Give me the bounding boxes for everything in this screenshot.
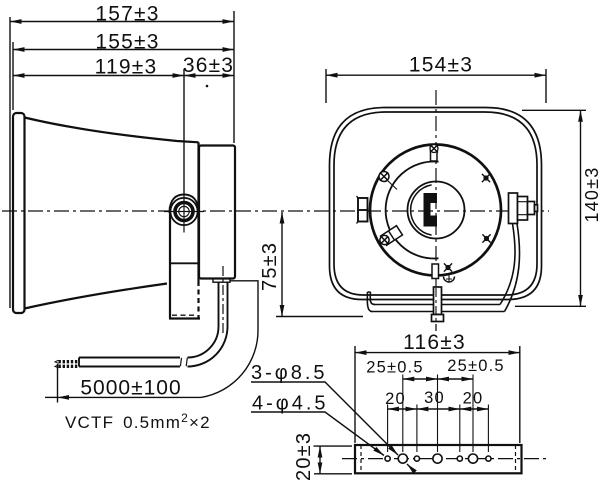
svg-text:157±3: 157±3 xyxy=(95,3,159,26)
svg-text:30: 30 xyxy=(424,389,445,407)
svg-text:154±3: 154±3 xyxy=(409,54,473,77)
svg-text:VCTF 0.5mm2×2: VCTF 0.5mm2×2 xyxy=(65,411,211,432)
svg-text:25±0.5: 25±0.5 xyxy=(447,357,505,375)
svg-text:140±3: 140±3 xyxy=(582,167,600,223)
svg-text:20: 20 xyxy=(463,390,484,408)
svg-text:25±0.5: 25±0.5 xyxy=(366,359,424,377)
svg-text:4-φ4.5: 4-φ4.5 xyxy=(252,393,329,415)
svg-text:20: 20 xyxy=(385,390,406,408)
svg-text:155±3: 155±3 xyxy=(95,31,159,54)
svg-text:75±3: 75±3 xyxy=(259,242,281,291)
svg-text:3-φ8.5: 3-φ8.5 xyxy=(251,362,328,384)
svg-text:119±3: 119±3 xyxy=(95,56,158,79)
svg-text:5000±100: 5000±100 xyxy=(80,377,181,400)
svg-text:36±3: 36±3 xyxy=(183,54,234,77)
svg-text:20±3: 20±3 xyxy=(293,432,315,481)
svg-text:116±3: 116±3 xyxy=(403,331,466,354)
